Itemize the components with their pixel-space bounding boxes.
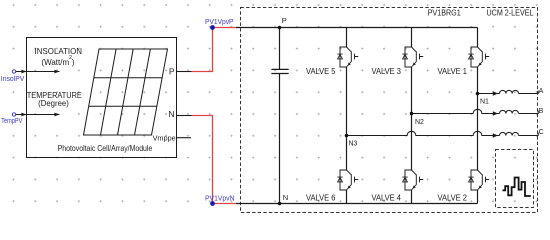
svg-text:VALVE 2: VALVE 2 (438, 192, 468, 202)
svg-text:C: C (539, 129, 544, 136)
svg-text:UCM 2-LEVEL: UCM 2-LEVEL (487, 8, 534, 18)
svg-text:VALVE 5: VALVE 5 (306, 66, 336, 76)
svg-text:INSOLATION: INSOLATION (35, 46, 83, 56)
svg-text:N: N (168, 109, 174, 119)
svg-text:P: P (169, 67, 175, 77)
svg-text:PV1VpvP: PV1VpvP (205, 17, 234, 26)
svg-text:VALVE 1: VALVE 1 (438, 66, 468, 76)
svg-text:TempPV: TempPV (1, 118, 22, 125)
svg-text:B: B (539, 108, 544, 115)
svg-text:InsolPV: InsolPV (1, 76, 25, 83)
svg-text:(Degree): (Degree) (38, 99, 69, 108)
svg-text:PV1VpvN: PV1VpvN (205, 194, 235, 203)
svg-text:VALVE 3: VALVE 3 (372, 66, 402, 76)
svg-text:N: N (283, 193, 288, 202)
svg-text:VALVE 6: VALVE 6 (306, 192, 336, 202)
svg-text:N3: N3 (349, 140, 358, 147)
svg-text:A: A (539, 88, 544, 95)
svg-text:PV1BRG1: PV1BRG1 (428, 8, 461, 18)
svg-text:P: P (282, 16, 287, 25)
svg-text:Vmppe: Vmppe (153, 134, 176, 143)
svg-text:Photovoltaic Cell/Array/Module: Photovoltaic Cell/Array/Module (58, 143, 153, 153)
svg-text:N2: N2 (415, 119, 424, 126)
svg-text:N1: N1 (480, 98, 489, 105)
svg-text:VALVE 4: VALVE 4 (372, 192, 402, 202)
